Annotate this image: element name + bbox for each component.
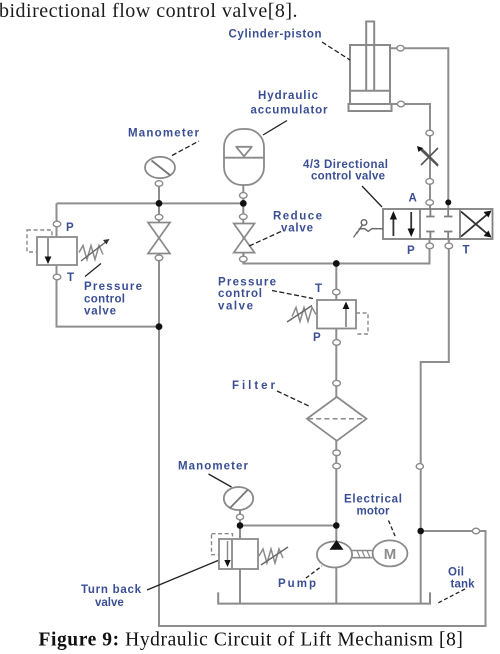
- svg-text:tank: tank: [451, 579, 476, 591]
- manometer bottom M2: [224, 487, 253, 510]
- wire top-left manifold: [57, 202, 244, 204]
- svg-text:T: T: [315, 283, 322, 295]
- svg-text:Cylinder-piston: Cylinder-piston: [229, 29, 322, 41]
- svg-text:control valve: control valve: [311, 171, 385, 183]
- leader manometer top: [172, 141, 199, 156]
- svg-text:Filter: Filter: [232, 380, 276, 392]
- svg-text:valve: valve: [84, 306, 116, 318]
- electrical motor M3: [373, 540, 408, 566]
- pump P1: [317, 540, 352, 568]
- leader turn back valve: [147, 561, 218, 591]
- leader accumulator: [263, 121, 287, 136]
- left cell arrows: [392, 214, 394, 236]
- leader oil tank: [436, 589, 465, 604]
- svg-text:4/3 Directional: 4/3 Directional: [303, 159, 388, 171]
- svg-text:Pressure: Pressure: [84, 281, 142, 293]
- motor-pump shaft coupling: [352, 551, 373, 558]
- svg-text:P: P: [407, 245, 415, 257]
- svg-text:valve: valve: [95, 597, 124, 609]
- leader filter: [277, 391, 311, 407]
- cylinder-piston C1: [349, 22, 392, 112]
- turn back valve V3: [212, 534, 289, 569]
- svg-text:Pump: Pump: [278, 578, 316, 590]
- oil tank T1: [218, 592, 430, 603]
- svg-text:T: T: [67, 272, 74, 284]
- reduce valve (bowtie) R1: [234, 224, 255, 253]
- left pressure control valve V1: [27, 230, 110, 265]
- hydraulic accumulator A1: [224, 129, 264, 185]
- wire valve P port to pressure line: [243, 224, 429, 264]
- lever operator: [361, 220, 367, 226]
- wire manometer2 stem: [239, 510, 241, 539]
- leader cylinder-piston: [322, 42, 350, 60]
- leader 4/3 valve: [362, 186, 382, 207]
- center pressure control valve V2: [287, 300, 368, 334]
- right cell crossed arrows: [461, 212, 490, 237]
- svg-text:Turn back: Turn back: [81, 584, 142, 596]
- wire valve T port to tank: [421, 239, 449, 603]
- wire reduce valve to line: [242, 253, 244, 264]
- 4/3 directional control valve U1: [354, 209, 493, 239]
- svg-text:P: P: [66, 222, 74, 234]
- svg-text:A: A: [409, 193, 417, 205]
- leader pressure valve left: [85, 264, 101, 277]
- wire return loop bottom: [159, 327, 486, 626]
- svg-text:Manometer: Manometer: [178, 461, 249, 473]
- svg-text:Figure 9: Hydraulic Circuit of: Figure 9: Hydraulic Circuit of Lift Mech…: [38, 630, 463, 651]
- svg-text:M: M: [384, 546, 397, 563]
- svg-text:bidirectional flow control val: bidirectional flow control valve[8].: [0, 0, 298, 22]
- wire cylinder top to valve B port: [390, 48, 448, 209]
- svg-text:Hydraulic: Hydraulic: [258, 90, 319, 102]
- svg-text:Oil: Oil: [448, 567, 464, 579]
- leader pump: [306, 566, 322, 578]
- svg-text:control: control: [218, 288, 262, 300]
- manometer top M1: [145, 157, 175, 178]
- svg-text:T: T: [463, 245, 470, 257]
- svg-text:Pressure: Pressure: [218, 277, 276, 289]
- wire pump suction: [335, 567, 337, 603]
- leader manometer bottom: [209, 474, 232, 487]
- throttle valve (variable): [417, 146, 438, 166]
- svg-text:Electrical: Electrical: [344, 494, 402, 506]
- left shutoff valve (bowtie): [148, 223, 170, 254]
- wire accumulator stem: [242, 185, 244, 224]
- svg-text:motor: motor: [357, 506, 391, 518]
- svg-text:P: P: [313, 332, 321, 344]
- wire left vertical branch: [158, 203, 160, 327]
- middle cell blocked ports: [426, 210, 434, 239]
- svg-text:accumulator: accumulator: [251, 105, 329, 117]
- wire turn back valve drain: [239, 569, 241, 603]
- svg-text:control: control: [84, 294, 125, 306]
- connector circles: [53, 45, 479, 533]
- leader pressure valve center: [272, 291, 313, 299]
- wire left pressure valve branch: [57, 203, 160, 326]
- leader electrical motor: [389, 521, 396, 538]
- filter F1: [307, 397, 367, 441]
- wire cylinder bottom via throttle to valve A port: [392, 104, 431, 209]
- wire center pressure branch: [335, 264, 337, 542]
- svg-text:valve: valve: [218, 301, 253, 313]
- wire manometer stem: [158, 184, 160, 203]
- svg-text:Reduce: Reduce: [273, 211, 322, 223]
- wire pump top manifold: [240, 525, 336, 527]
- svg-text:Manometer: Manometer: [128, 128, 200, 140]
- svg-text:valve: valve: [281, 223, 313, 235]
- leader reduce valve: [247, 232, 281, 248]
